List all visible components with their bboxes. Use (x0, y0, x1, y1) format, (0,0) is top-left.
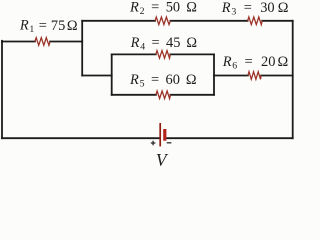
label R2 = 50 ohm (129, 0, 197, 17)
svg-text:Ω: Ω (186, 72, 197, 88)
svg-text:4: 4 (140, 41, 145, 52)
wire: R1 branch left segment (2, 41, 35, 43)
battery V (151, 123, 172, 146)
svg-text:Ω: Ω (278, 0, 289, 16)
svg-text:Ω: Ω (67, 18, 78, 34)
svg-text:R: R (221, 0, 231, 16)
label R6 = 20 ohm (222, 54, 289, 72)
svg-text:R: R (129, 72, 139, 88)
svg-text:5: 5 (140, 78, 145, 89)
wire: R4 branch left segment (112, 53, 156, 55)
resistor R1 (35, 38, 50, 46)
wire: box left edge (111, 54, 113, 94)
resistor R2 (155, 17, 170, 25)
label R3 = 30 ohm (221, 0, 289, 17)
svg-text:=: = (151, 0, 159, 16)
svg-text:75: 75 (51, 18, 65, 34)
wire: box right edge (213, 54, 215, 94)
svg-text:Ω: Ω (186, 35, 197, 51)
svg-text:=: = (245, 54, 253, 70)
svg-text:2: 2 (140, 6, 145, 17)
wire: top branch left of R2 (82, 20, 155, 22)
svg-text:Ω: Ω (278, 54, 289, 70)
svg-text:R: R (130, 35, 140, 51)
svg-text:Ω: Ω (186, 0, 197, 16)
label R4 = 45 ohm (130, 35, 198, 53)
wire: top branch between R2 and R3 (170, 20, 247, 22)
svg-text:3: 3 (231, 6, 236, 17)
svg-text:=: = (151, 72, 159, 88)
wire: R1 branch right segment to junction (50, 41, 82, 43)
wire: R6 branch right segment (261, 75, 293, 77)
resistor R6 (248, 72, 261, 80)
battery minus sign (167, 142, 172, 144)
wire: R5 branch right segment (171, 94, 215, 96)
svg-text:1: 1 (29, 24, 34, 35)
svg-text:6: 6 (232, 61, 237, 72)
svg-text:50: 50 (166, 0, 180, 16)
wire: R4 branch right segment (170, 53, 214, 55)
svg-text:60: 60 (166, 72, 180, 88)
wire: left edge vertical (1, 41, 3, 138)
wire: bottom left to battery (2, 137, 160, 139)
wire: top branch right of R3 (262, 20, 293, 22)
wire: R5 branch left segment (112, 94, 156, 96)
wire: right edge vertical (292, 21, 294, 138)
svg-text:30: 30 (260, 0, 274, 16)
wire: feed to parallel box (82, 75, 112, 77)
svg-text:R: R (19, 17, 29, 33)
resistor R4 (156, 51, 171, 59)
resistor R5 (156, 91, 171, 99)
svg-text:=: = (39, 18, 47, 34)
svg-text:=: = (152, 35, 160, 51)
svg-text:20: 20 (261, 54, 275, 70)
label R1 = 75 ohm (19, 17, 78, 35)
battery plus sign (151, 141, 172, 146)
resistor R3 (248, 17, 263, 25)
svg-text:R: R (222, 54, 232, 70)
svg-text:R: R (129, 0, 139, 16)
wire: battery to bottom right (166, 137, 293, 139)
wire: junction vertical after R1 (81, 21, 83, 76)
svg-text:=: = (244, 0, 252, 16)
label R5 = 60 ohm (129, 72, 197, 90)
wire: R6 branch left segment (214, 75, 248, 77)
svg-text:45: 45 (166, 35, 180, 51)
